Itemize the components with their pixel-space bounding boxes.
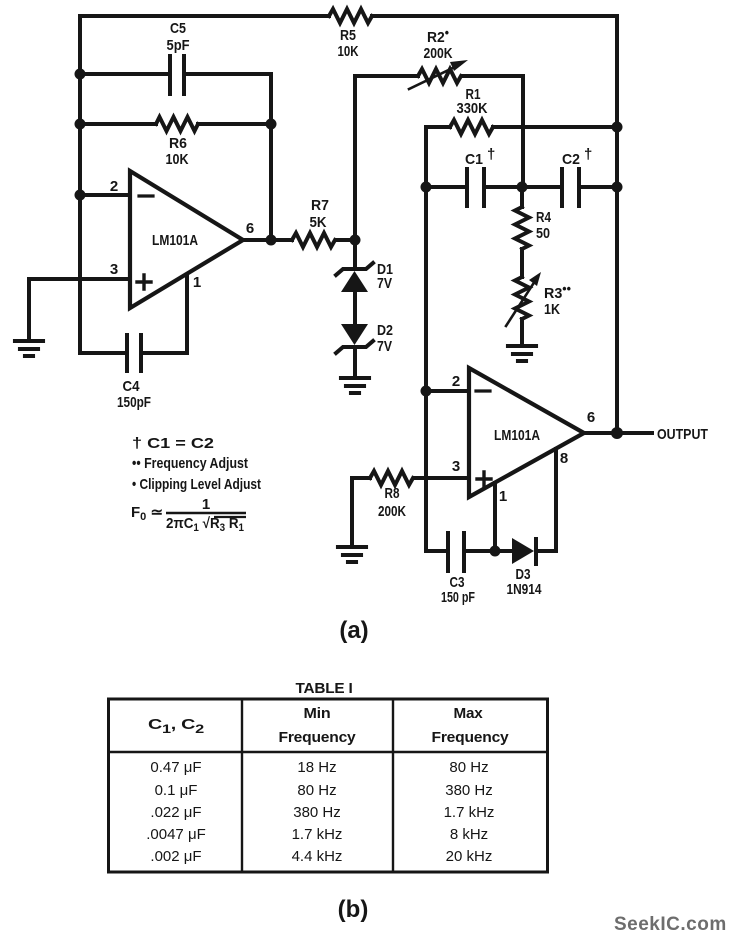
- diode D3 cathode bar: [534, 539, 538, 564]
- capacitor C1 plates: [467, 169, 484, 206]
- svg-text:1K: 1K: [544, 301, 560, 318]
- capacitor C4 plates: [127, 335, 141, 371]
- svg-text:380 Hz: 380 Hz: [445, 782, 493, 799]
- svg-text:†: †: [487, 146, 495, 163]
- resistor R8: [370, 471, 413, 485]
- svg-text:80 Hz: 80 Hz: [297, 782, 336, 799]
- junction: left rail / pin 2 U1: [75, 190, 86, 201]
- svg-text:F0 ≃: F0 ≃: [131, 504, 163, 523]
- junction: U1 output node: [266, 235, 277, 246]
- svg-text:10K: 10K: [166, 151, 189, 168]
- resistor R7: [292, 233, 335, 247]
- wire R6 left: [80, 122, 156, 126]
- svg-text:C5: C5: [170, 20, 186, 37]
- zener D2 body: [341, 324, 368, 345]
- svg-text:1N914: 1N914: [507, 581, 543, 598]
- table data rows: [146, 759, 494, 865]
- svg-text:4.4 kHz: 4.4 kHz: [292, 848, 343, 865]
- svg-text:20 kHz: 20 kHz: [446, 848, 493, 865]
- svg-text:C2: C2: [562, 151, 580, 168]
- resistor R6: [156, 117, 198, 131]
- svg-text:.002 μF: .002 μF: [150, 848, 201, 865]
- svg-text:3: 3: [452, 458, 460, 475]
- formula vinculum: [214, 516, 246, 518]
- op-amp U1 triangle: [130, 171, 243, 308]
- svg-text:.0047 μF: .0047 μF: [146, 826, 206, 843]
- svg-text:3: 3: [110, 261, 118, 278]
- wire: pin 3 input op-amp U1 to ground: [29, 279, 130, 340]
- svg-text:330K: 330K: [457, 100, 488, 117]
- wire: C3 right to D3 anode: [464, 549, 512, 553]
- potentiometer R3 arrow shaft: [506, 281, 535, 326]
- wire R6 right: [198, 122, 271, 126]
- svg-text:R5: R5: [340, 27, 356, 44]
- svg-text:1.7 kHz: 1.7 kHz: [444, 804, 495, 821]
- svg-text:1.7 kHz: 1.7 kHz: [292, 826, 343, 843]
- wire: R2 right, corner down to C1/C2 node: [462, 76, 523, 187]
- op-amp U2 plus sign: [477, 472, 491, 486]
- junction: left rail / R6: [75, 119, 86, 130]
- wire: pin 8 op-amp U2 down: [554, 449, 558, 551]
- R3 arrowhead: [529, 272, 541, 286]
- wire: R4 to R3: [520, 249, 524, 277]
- svg-text:7V: 7V: [377, 338, 392, 355]
- capacitor C3 plates: [448, 533, 464, 571]
- wire R1 ends: [426, 125, 617, 129]
- svg-text:8 kHz: 8 kHz: [450, 826, 488, 843]
- wire: top-left rail (left vertical + top horizontal to R5): [80, 16, 329, 353]
- svg-text:8: 8: [560, 450, 568, 467]
- svg-text:Frequency: Frequency: [279, 730, 356, 746]
- junction: C1/C2/R4 node: [517, 182, 528, 193]
- svg-text:2: 2: [452, 373, 460, 390]
- svg-text:200K: 200K: [424, 45, 453, 62]
- ground below R3: [508, 346, 536, 361]
- svg-text:.022 μF: .022 μF: [150, 804, 201, 821]
- potentiometer R2 zigzag: [418, 69, 461, 83]
- svg-text:C1, C2: C1, C2: [148, 717, 205, 736]
- wire: C4 bottom left: [80, 351, 127, 355]
- svg-text:R7: R7: [311, 197, 329, 214]
- potentiometer R3 zigzag: [515, 277, 529, 319]
- wire: top horizontal from R5 to top-right corner, right rail down to output node: [372, 16, 617, 433]
- svg-text:1: 1: [499, 488, 507, 505]
- table frame: [108, 699, 548, 872]
- svg-text:R3••: R3••: [544, 281, 571, 302]
- zener D1 body: [341, 271, 368, 292]
- svg-text:Min: Min: [304, 706, 331, 722]
- svg-text:200K: 200K: [378, 503, 406, 520]
- svg-text:LM101A: LM101A: [494, 427, 540, 444]
- wire: pin 2 input op-amp U1: [80, 193, 130, 197]
- wire: D1 to D2: [353, 292, 357, 324]
- ground below R8: [338, 547, 366, 562]
- svg-text:LM101A: LM101A: [152, 232, 198, 249]
- svg-text:(b): (b): [338, 896, 369, 923]
- wire: C5 right to feedback rail down to op-amp output: [184, 74, 271, 240]
- svg-text:Max: Max: [454, 706, 483, 722]
- wire: C4 right up to pin 1: [141, 275, 187, 353]
- junction: output node: [611, 427, 623, 439]
- svg-text:D2: D2: [377, 322, 393, 339]
- wire: R1 left corner, vertical rail down to bottom wire: [426, 127, 448, 551]
- wire: R3 to ground: [520, 319, 524, 345]
- svg-text:80 Hz: 80 Hz: [449, 759, 488, 776]
- svg-text:0.1 μF: 0.1 μF: [155, 782, 198, 799]
- svg-text:SeekIC.com: SeekIC.com: [614, 914, 727, 935]
- wire: pin 1 op-amp U2 down: [493, 483, 497, 551]
- svg-text:R4: R4: [536, 209, 552, 226]
- svg-text:50: 50: [536, 225, 550, 242]
- svg-text:R8: R8: [385, 485, 400, 502]
- svg-text:†: †: [584, 146, 592, 163]
- svg-text:0.47 μF: 0.47 μF: [150, 759, 201, 776]
- junction: feedback rail / R6: [266, 119, 277, 130]
- ground near pin3 U1: [15, 341, 43, 356]
- wire: R8 left end down to ground: [352, 478, 370, 546]
- junction: right rail / R1: [612, 122, 623, 133]
- resistor R4: [515, 207, 529, 249]
- capacitor C2 plates: [562, 169, 579, 206]
- diode D3 body: [512, 538, 534, 564]
- junction: R7 / R2 / D1 node: [350, 235, 361, 246]
- wire: U1 output to R7: [243, 238, 292, 242]
- svg-text:2: 2: [110, 178, 118, 195]
- op-amp U2 triangle: [469, 368, 584, 497]
- op-amp U2 minus sign: [476, 389, 490, 392]
- svg-text:• Clipping Level Adjust: • Clipping Level Adjust: [132, 476, 261, 493]
- junction: left rail / C5: [75, 69, 86, 80]
- capacitor C1 wires: [426, 185, 522, 189]
- capacitor C2 wires: [522, 185, 617, 189]
- svg-text:† C1 = C2: † C1 = C2: [132, 435, 214, 452]
- svg-text:6: 6: [587, 409, 595, 426]
- op-amp U1 minus sign: [139, 194, 153, 197]
- svg-text:R6: R6: [169, 135, 187, 152]
- svg-text:(a): (a): [339, 617, 368, 644]
- svg-text:150pF: 150pF: [117, 394, 151, 411]
- svg-text:TABLE I: TABLE I: [296, 681, 353, 697]
- wire: R7 right to node: [336, 238, 355, 242]
- svg-text:•• Frequency Adjust: •• Frequency Adjust: [132, 455, 248, 472]
- svg-text:150 pF: 150 pF: [441, 589, 475, 606]
- svg-text:R2•: R2•: [427, 25, 449, 46]
- zener D2 cathode bar: [336, 341, 373, 353]
- wire: C mid node down to R4: [520, 187, 524, 207]
- svg-text:OUTPUT: OUTPUT: [657, 426, 708, 443]
- ground below D2: [341, 378, 369, 393]
- junction: pin 2 U2 node: [421, 386, 432, 397]
- junction: right rail / C2: [612, 182, 623, 193]
- zener D1 cathode bar: [336, 263, 373, 275]
- wire: pin 2 input op-amp U2: [426, 389, 469, 393]
- wire: D2 to ground: [353, 347, 357, 378]
- svg-text:5K: 5K: [310, 214, 327, 231]
- formula fraction bar: [166, 512, 246, 515]
- wire: node down to zener D1: [353, 240, 357, 269]
- svg-text:C1: C1: [465, 151, 483, 168]
- svg-text:1: 1: [202, 496, 210, 513]
- svg-text:10K: 10K: [338, 43, 359, 60]
- wire: R8 to pin 3 op-amp U2: [414, 476, 469, 480]
- potentiometer R2 arrow shaft: [409, 65, 459, 89]
- capacitor C5 left wire: [80, 72, 170, 76]
- capacitor C5 plates: [170, 56, 184, 94]
- op-amp U1 plus sign: [137, 275, 151, 289]
- wire: D3 to pin8 wire: [537, 549, 556, 553]
- svg-text:C4: C4: [123, 378, 141, 395]
- resistor R1: [450, 120, 493, 134]
- wire: U2 output: [584, 431, 652, 435]
- svg-text:18 Hz: 18 Hz: [297, 759, 336, 776]
- svg-text:Frequency: Frequency: [432, 730, 509, 746]
- svg-text:1: 1: [193, 274, 201, 291]
- resistor R5: [329, 9, 372, 23]
- wire: node up to R2 level: [355, 76, 418, 240]
- R2 arrowhead: [450, 60, 468, 71]
- svg-text:5pF: 5pF: [167, 37, 190, 54]
- svg-text:6: 6: [246, 220, 254, 237]
- junction: C3 / D3 / pin 1 U2 node: [490, 546, 501, 557]
- svg-text:7V: 7V: [377, 275, 392, 292]
- junction: C1 left node: [421, 182, 432, 193]
- svg-text:380 Hz: 380 Hz: [293, 804, 341, 821]
